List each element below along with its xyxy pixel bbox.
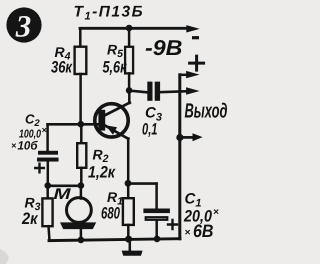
wire R2 top lead (80, 124, 83, 143)
wire C2 bottom lead (47, 162, 50, 186)
svg-text:2к: 2к (21, 210, 39, 228)
svg-text:×: × (213, 207, 219, 218)
resistor R3 body (42, 198, 52, 226)
badge circled 3 (6, 7, 41, 42)
wire R1 bottom lead (127, 225, 130, 239)
wire upper output stub (180, 74, 187, 77)
svg-text:×: × (42, 125, 48, 135)
wire R4 top lead (79, 28, 82, 46)
svg-text:0,1: 0,1 (142, 121, 158, 139)
svg-text:-9В: -9В (145, 36, 183, 60)
transistor T1 collector stroke (104, 103, 130, 116)
transistor T1 circle (95, 104, 128, 137)
wire R5 bottom lead to collector node (128, 73, 131, 90)
svg-text:Выход: Выход (185, 100, 228, 123)
capacitor C1 plus sign (168, 220, 177, 229)
ground symbol stub (129, 239, 132, 251)
transistor T1 emitter arrow (PNP) (106, 125, 118, 135)
node R2/mic junction (78, 182, 85, 189)
capacitor C1 top plate (filled) (143, 209, 170, 214)
wire C1 top lead (155, 184, 158, 209)
node collector junction (126, 87, 133, 94)
svg-text:5,6к: 5,6к (103, 59, 128, 77)
capacitor C3 right plate (155, 82, 160, 101)
svg-text:М: М (54, 186, 72, 203)
wire C2 top lead (46, 124, 49, 151)
wire collector node to C3 (129, 91, 147, 93)
microphone M bottom bar (60, 222, 96, 229)
wire R1 top lead (127, 183, 130, 198)
resistor R1 body (123, 198, 134, 225)
svg-text:×: × (185, 228, 191, 239)
node C1/rail junction (154, 236, 161, 243)
resistor R4 body (75, 47, 87, 74)
node emitter junction (125, 180, 132, 187)
output common arrowhead (193, 133, 203, 141)
resistor R5 body (125, 47, 133, 74)
minus sign top right (192, 36, 199, 39)
wire output common stub (180, 136, 193, 139)
wire collector vertical into transistor (128, 90, 131, 103)
svg-text:3: 3 (15, 9, 32, 44)
wire C3 to output arrow (160, 91, 187, 92)
wire R4 bottom lead to base node (79, 74, 82, 124)
transistor T1 base bar (98, 110, 105, 131)
wire microphone bottom lead (80, 229, 83, 240)
paper background (0, 0, 230, 264)
wire bottom ground rail (49, 239, 180, 241)
output plus arrowhead (186, 71, 200, 78)
svg-text:×: × (11, 141, 17, 151)
transistor T1 emitter stroke (104, 125, 129, 139)
wire emitter node to C1 (128, 182, 157, 185)
resistor R2 body (77, 143, 86, 168)
plus sign output terminal (190, 56, 204, 70)
svg-text:6В: 6В (193, 221, 214, 241)
svg-text:Т1-П13Б: Т1-П13Б (74, 4, 145, 23)
wire emitter vertical (127, 139, 130, 184)
wire R3 bottom lead (49, 226, 50, 240)
supply rail arrowhead (186, 25, 200, 32)
wire R3 top lead (46, 186, 49, 199)
capacitor C2 plus sign (35, 164, 44, 173)
microphone M circle (67, 198, 92, 223)
wire R2 bottom lead (80, 168, 83, 186)
wire base node to transistor base (48, 123, 102, 126)
svg-text:36к: 36к (51, 59, 73, 77)
ground symbol bar (122, 251, 143, 256)
capacitor C1 bottom plate (outline) (146, 217, 168, 220)
node R1-ground/rail junction (125, 236, 132, 243)
wire microphone top lead (80, 186, 83, 199)
node mic/rail junction (78, 237, 85, 244)
wire output vertical line (178, 75, 181, 239)
svg-text:10б: 10б (18, 139, 39, 153)
node base junction (78, 121, 85, 128)
wire R5 top lead (128, 28, 131, 47)
svg-text:680: 680 (101, 205, 121, 223)
wire top supply rail (80, 27, 187, 30)
output lower arrowhead (186, 87, 200, 94)
node output common junction (176, 134, 183, 141)
wire C1 bottom lead (155, 222, 158, 239)
capacitor C3 left plate (147, 82, 152, 101)
scan smudge bottom-left corner (0, 249, 9, 264)
capacitor C2 top plate (filled) (38, 151, 58, 155)
node top rail / R5 junction (126, 25, 133, 32)
capacitor C2 bottom plate (outline) (38, 159, 57, 161)
wire junction to mic node (48, 184, 81, 187)
node C2/R3 junction (45, 182, 52, 189)
svg-text:1,2к: 1,2к (88, 164, 116, 182)
